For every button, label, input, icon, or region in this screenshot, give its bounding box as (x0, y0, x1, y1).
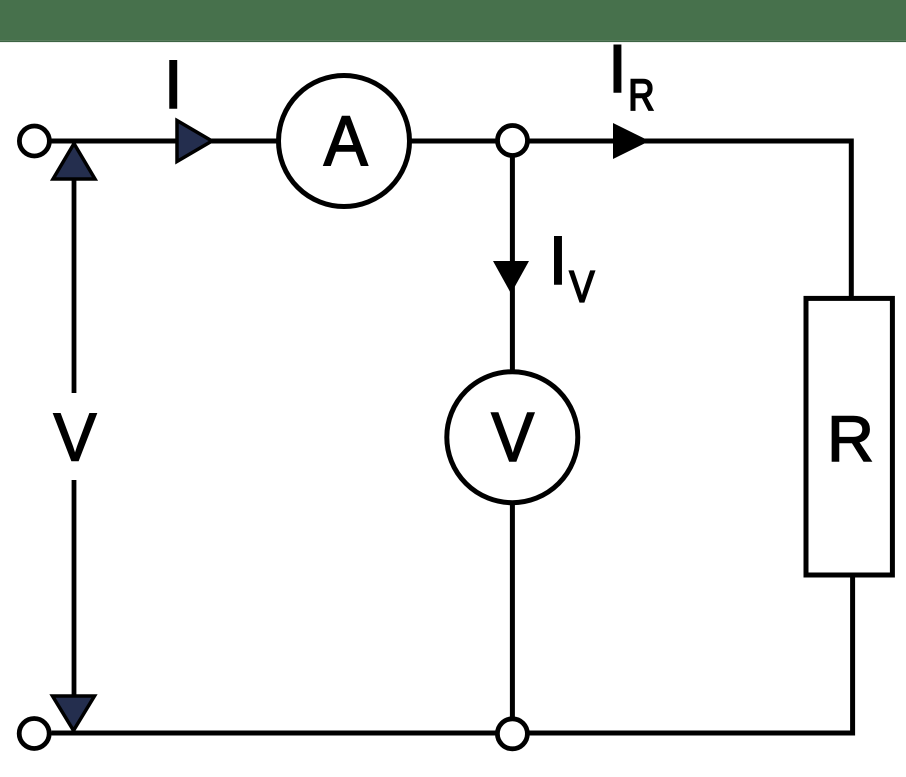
green header bar (0, 0, 906, 41)
svg-text:I: I (549, 223, 568, 299)
voltage arrow V: lower shaft (72, 480, 77, 699)
current arrow I (177, 121, 212, 162)
svg-text:R: R (827, 402, 874, 475)
ammeter A1 (279, 76, 410, 207)
svg-text:A: A (324, 101, 368, 180)
wire: node A down to voltmeter (510, 156, 515, 372)
svg-text:V: V (54, 401, 97, 476)
bottom wire: node B to bottom-left terminal (52, 731, 499, 736)
voltage arrow V: down arrowhead (53, 696, 95, 731)
voltmeter V1 (447, 372, 578, 503)
current arrow I_V (493, 261, 529, 294)
node A (top junction circle) (498, 126, 528, 156)
wire: top-left terminal to ammeter (52, 139, 280, 144)
wire: node A to top-right corner and down to resistor (528, 141, 852, 298)
wire: voltmeter to node B (510, 503, 515, 719)
svg-text:I: I (164, 47, 183, 123)
svg-text:I: I (608, 31, 627, 107)
node B (bottom junction circle) (497, 719, 527, 749)
wire: resistor bottom to bottom rail corner (529, 575, 853, 733)
current arrow I_R (613, 123, 650, 159)
voltage arrow V: up arrowhead (53, 144, 95, 180)
svg-text:V: V (491, 398, 534, 476)
terminal node bottom-left (19, 719, 49, 749)
terminal node top-left (19, 126, 49, 156)
resistor R (806, 298, 892, 575)
wire: ammeter to node A (409, 139, 498, 144)
voltage arrow V: upper shaft (72, 176, 77, 393)
